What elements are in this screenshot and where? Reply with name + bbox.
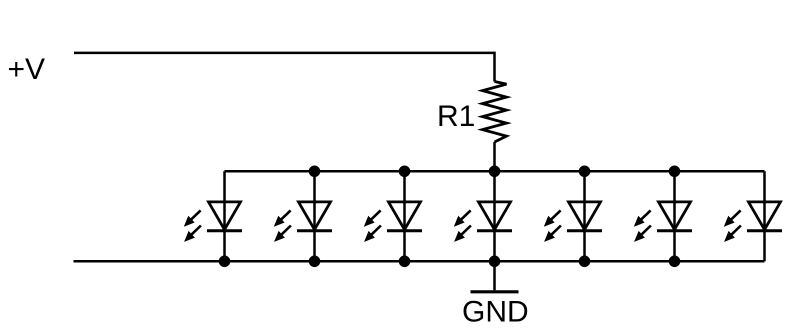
ground	[471, 290, 519, 293]
svg-text:+V: +V	[8, 53, 46, 86]
resistor R1	[483, 82, 507, 143]
LED D3	[364, 171, 422, 261]
wire +V horizontal	[74, 52, 495, 55]
svg-text:GND: GND	[462, 295, 529, 328]
wire top bus	[225, 170, 765, 173]
junction bottom bus at D2	[309, 255, 321, 267]
junction top bus at D6	[669, 166, 681, 178]
LED D2	[274, 171, 332, 261]
wire +V corner drop to R1	[493, 53, 494, 82]
junction top bus at R1	[489, 166, 501, 178]
LED D5	[544, 171, 602, 261]
wire bottom bus	[74, 260, 765, 263]
LED D6	[634, 171, 692, 261]
wire ground stub	[493, 261, 496, 290]
LED D1	[184, 171, 242, 261]
wire R1 bottom lead	[493, 142, 496, 171]
junction bottom bus at D1	[219, 255, 231, 267]
junction bottom bus at D6	[669, 255, 681, 267]
junction top bus at D3	[399, 166, 411, 178]
junction bottom bus at GND stub	[489, 255, 501, 267]
junction bottom bus at D5	[579, 255, 591, 267]
LED D4	[454, 171, 512, 261]
junction top bus at D5	[579, 166, 591, 178]
LED D7	[724, 171, 782, 261]
junction top bus at D2	[309, 166, 321, 178]
svg-text:R1: R1	[437, 100, 475, 133]
junction bottom bus at D3	[399, 255, 411, 267]
